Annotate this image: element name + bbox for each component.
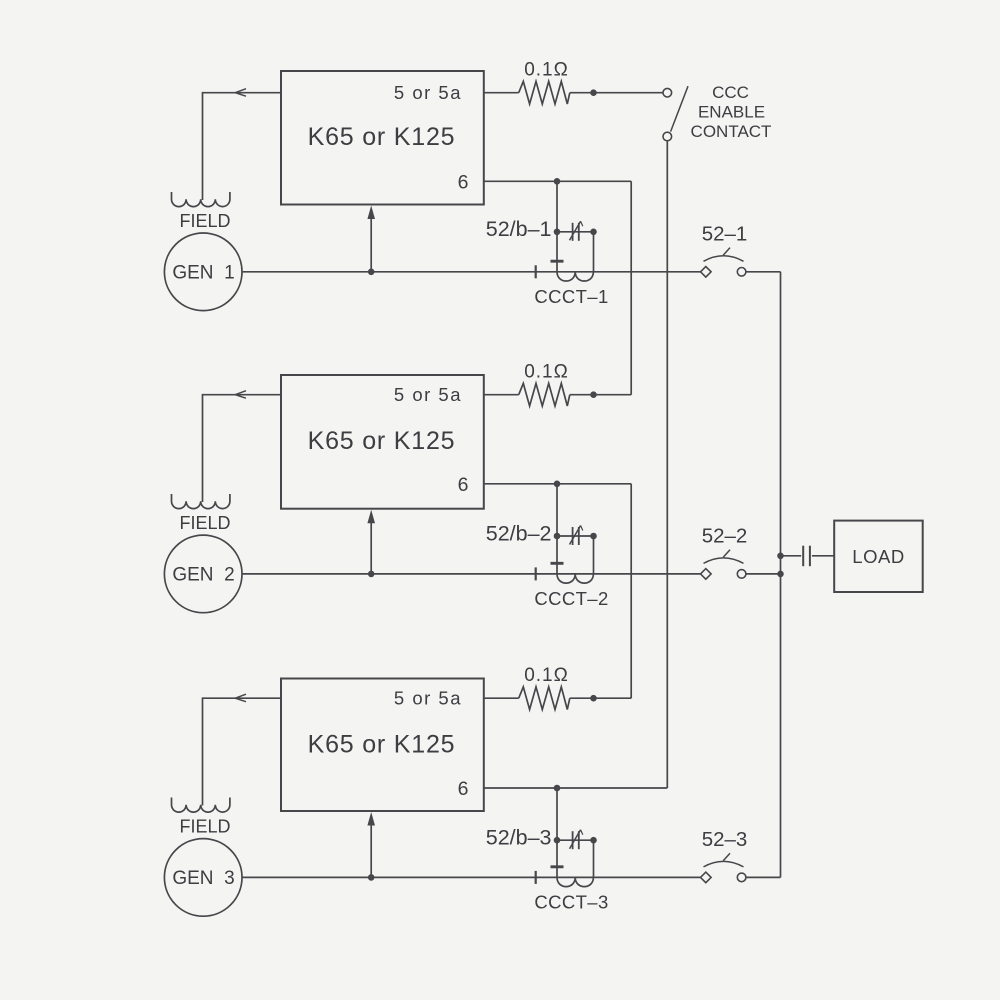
CCC enable contact upper terminal	[663, 88, 672, 97]
wire U3 left pin to field winding	[203, 697, 282, 805]
wire 52/b-3 left node down to CCCT-3	[556, 840, 558, 877]
pin label 6 of U1	[458, 171, 469, 193]
CT primary bar of CCCT-2	[551, 562, 564, 565]
label CCCT-2	[534, 588, 608, 609]
sense wire with up arrow into U3 bottom	[367, 812, 375, 877]
breaker 52-3 right terminal	[737, 873, 746, 882]
pin label 5 or 5a of U2	[394, 384, 462, 405]
generator GEN 3 circle	[164, 839, 242, 917]
field winding coil of GEN 1	[172, 192, 230, 207]
breaker 52-1 arc and tick	[704, 248, 744, 262]
breaker 52-2 right terminal	[737, 570, 746, 579]
label CCCT-3	[534, 892, 608, 913]
label 52-1	[702, 222, 748, 245]
pin label 6 of U2	[458, 474, 469, 496]
wire 52/b-1 right node down to CCCT-1	[593, 232, 595, 272]
svg-text:CCC: CCC	[712, 83, 749, 102]
CCC enable bus wire down to U3 pin6	[666, 141, 668, 788]
label FIELD of GEN 2	[179, 513, 230, 533]
breaker 52-1 right terminal	[737, 268, 746, 277]
contact 52/b-2 right node dot	[590, 533, 597, 540]
wire node to vertical from U1 pin6	[594, 394, 632, 396]
contact 52/b-1 left node dot	[554, 229, 561, 236]
svg-text:CCCT–2: CCCT–2	[534, 588, 608, 609]
wire 52/b-2 right node down to CCCT-2	[593, 536, 595, 574]
svg-text:52–1: 52–1	[702, 222, 748, 245]
wire breaker 52-3 output to bus	[746, 876, 781, 878]
contact 52/b-3 horizontal wire	[557, 839, 594, 841]
node dot on bus at 52-2 output	[777, 571, 784, 578]
field winding coil of GEN 2	[172, 494, 230, 509]
wire U1 pin6 horizontal	[484, 180, 631, 182]
wire vertical U2 pin6 down to U3 resistor node	[630, 484, 632, 698]
svg-text:6: 6	[458, 474, 469, 496]
svg-text:52/b–2: 52/b–2	[486, 521, 552, 545]
svg-text:0.1Ω: 0.1Ω	[524, 665, 569, 686]
polarity tick left of CCCT-1	[535, 265, 537, 278]
wire resistor R3 output to node	[570, 697, 594, 699]
svg-text:LOAD: LOAD	[852, 546, 904, 567]
value label 0.1 ohm for R2	[524, 362, 569, 383]
svg-text:K65 or K125: K65 or K125	[308, 730, 456, 758]
breaker 52-2 left terminal	[701, 569, 712, 580]
contact 52/b-2 horizontal wire	[557, 535, 594, 537]
svg-text:5 or 5a: 5 or 5a	[394, 82, 462, 103]
generator GEN 2 circle	[164, 535, 242, 613]
svg-text:FIELD: FIELD	[179, 211, 230, 231]
breaker 52-3 arc and tick	[704, 853, 744, 867]
wire pin6 node down to contact 52/b-1	[556, 181, 558, 232]
wire resistor R1 output to node	[570, 92, 594, 94]
arrowhead toward field on U3 left wire	[235, 694, 246, 702]
svg-text:52–2: 52–2	[702, 524, 748, 547]
node dot at resistor R3 output	[590, 695, 597, 702]
wire GEN 3 output line	[242, 876, 701, 878]
CT primary bar of CCCT-3	[551, 865, 564, 868]
CT secondary bumps of CCCT-2	[557, 574, 593, 583]
wire pin6 node down to contact 52/b-2	[556, 484, 558, 536]
label 52-2	[702, 524, 748, 547]
resistor R1 0.1 ohm zigzag	[519, 81, 570, 104]
wire resistor R2 output to node	[570, 394, 594, 396]
svg-text:52/b–1: 52/b–1	[486, 217, 552, 241]
CT secondary bumps of CCCT-3	[557, 877, 593, 886]
svg-text:CCCT–3: CCCT–3	[534, 892, 608, 913]
coupling capacitor to load	[803, 546, 810, 567]
field winding coil of GEN 3	[172, 798, 230, 813]
svg-text:0.1Ω: 0.1Ω	[524, 60, 569, 81]
svg-text:GEN 2: GEN 2	[172, 565, 234, 586]
wire 52/b-2 left node down to CCCT-2	[556, 536, 558, 574]
value label 0.1 ohm for R3	[524, 665, 569, 686]
CT primary bar of CCCT-1	[551, 260, 564, 263]
svg-text:GEN 3: GEN 3	[172, 868, 234, 889]
label 52/b-2	[486, 521, 552, 545]
label 52/b-3	[486, 826, 552, 850]
contact 52/b-1 horizontal wire	[557, 231, 594, 233]
label FIELD of GEN 1	[179, 211, 230, 231]
polarity tick left of CCCT-3	[535, 871, 537, 884]
wire breaker 52-1 output to bus	[746, 271, 781, 273]
svg-text:FIELD: FIELD	[179, 816, 230, 836]
pin label 5 or 5a of U1	[394, 82, 462, 103]
svg-text:0.1Ω: 0.1Ω	[524, 362, 569, 383]
arrowhead toward field on U2 left wire	[235, 391, 246, 399]
breaker 52-1 left terminal	[701, 267, 712, 278]
svg-text:52–3: 52–3	[702, 828, 748, 851]
wire U3 pin6 horizontal	[484, 787, 668, 789]
breaker aux contact 52/b-1 bars and slash	[570, 221, 583, 241]
wire breaker 52-2 output to bus	[746, 573, 781, 575]
node dot on GEN 3 line at sense tap	[368, 874, 375, 881]
node dot on U2 pin6 wire	[554, 481, 561, 488]
wire U2 left pin to field winding	[203, 394, 282, 502]
breaker aux contact 52/b-2 bars and slash	[570, 526, 583, 546]
node dot at resistor R2 output	[590, 391, 597, 398]
node dot on bus at load branch	[777, 553, 784, 560]
svg-text:K65 or K125: K65 or K125	[308, 123, 456, 151]
label CCCT-1	[534, 286, 608, 307]
label 52/b-1	[486, 217, 552, 241]
wire GEN 1 output line	[242, 271, 701, 273]
pin label 6 of U3	[458, 778, 469, 800]
contact 52/b-1 right node dot	[590, 229, 597, 236]
breaker aux contact 52/b-3 bars and slash	[570, 830, 583, 850]
right bus wire from 52-1 down to 52-3	[780, 272, 782, 878]
svg-text:GEN 1: GEN 1	[172, 263, 234, 284]
svg-text:FIELD: FIELD	[179, 513, 230, 533]
CCC enable contact lower terminal	[663, 132, 672, 141]
wire vertical U1 pin6 down to U2 resistor node	[630, 181, 632, 394]
contact 52/b-2 left node dot	[554, 533, 561, 540]
node dot on U1 pin6 wire	[554, 178, 561, 185]
wire capacitor to LOAD box	[812, 555, 834, 557]
node dot on GEN 1 line at sense tap	[368, 269, 375, 276]
label CCC ENABLE CONTACT	[691, 83, 772, 141]
arrowhead toward field on U1 left wire	[235, 89, 246, 97]
svg-text:5 or 5a: 5 or 5a	[394, 384, 462, 405]
svg-text:ENABLE: ENABLE	[698, 102, 765, 121]
wire bus to coupling capacitor	[781, 555, 802, 557]
wire U2 pin6 horizontal	[484, 483, 631, 485]
svg-text:K65 or K125: K65 or K125	[308, 427, 456, 455]
generator GEN 1 circle	[164, 233, 242, 311]
contact 52/b-3 left node dot	[554, 837, 561, 844]
polarity tick left of CCCT-2	[535, 567, 537, 580]
K65 or K125 control box U3	[281, 679, 484, 812]
wire from U2 pin5 to resistor R2	[484, 394, 519, 396]
wire node to vertical from U2 pin6	[594, 697, 632, 699]
node dot at resistor R1 output	[590, 89, 597, 96]
K65 or K125 control box U2	[281, 375, 484, 509]
wire U1 left pin to field winding	[203, 92, 282, 200]
CCC enable contact blade	[671, 86, 688, 131]
label 52-3	[702, 828, 748, 851]
svg-text:6: 6	[458, 778, 469, 800]
LOAD box	[834, 521, 923, 592]
wire pin6 node down to contact 52/b-3	[556, 788, 558, 840]
K65 or K125 control box U1	[281, 71, 484, 205]
wire 52/b-1 left node down to CCCT-1	[556, 232, 558, 272]
svg-text:5 or 5a: 5 or 5a	[394, 688, 462, 709]
contact 52/b-3 right node dot	[590, 837, 597, 844]
CT secondary bumps of CCCT-1	[557, 272, 593, 281]
wire from U3 pin5 to resistor R3	[484, 697, 519, 699]
svg-text:CCCT–1: CCCT–1	[534, 286, 608, 307]
node dot on GEN 2 line at sense tap	[368, 571, 375, 578]
resistor R2 0.1 ohm zigzag	[519, 383, 570, 406]
label FIELD of GEN 3	[179, 816, 230, 836]
value label 0.1 ohm for R1	[524, 60, 569, 81]
svg-text:6: 6	[458, 171, 469, 193]
pin label 5 or 5a of U3	[394, 688, 462, 709]
wire 52/b-3 right node down to CCCT-3	[593, 840, 595, 877]
breaker 52-3 left terminal	[701, 872, 712, 883]
wire from U1 pin5 to resistor R1	[484, 92, 519, 94]
svg-text:52/b–3: 52/b–3	[486, 826, 552, 850]
sense wire with up arrow into U2 bottom	[367, 510, 375, 574]
sense wire with up arrow into U1 bottom	[367, 206, 375, 272]
wire node to CCC enable contact	[594, 92, 664, 94]
node dot on U3 pin6 wire	[554, 785, 561, 792]
wire GEN 2 output line	[242, 573, 701, 575]
breaker 52-2 arc and tick	[704, 550, 744, 564]
svg-text:CONTACT: CONTACT	[691, 122, 772, 141]
resistor R3 0.1 ohm zigzag	[519, 687, 570, 710]
